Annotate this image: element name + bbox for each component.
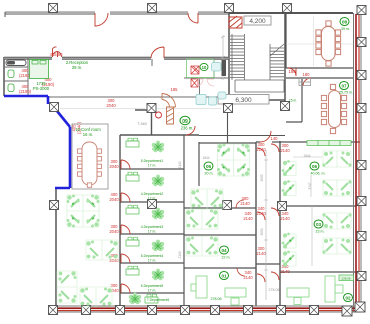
svg-text:17 m.: 17 m. [148,259,157,263]
svg-text:2140: 2140 [280,148,290,153]
svg-text:2140: 2140 [178,161,182,168]
svg-text:40.06. m.: 40.06. m. [311,172,326,176]
svg-text:05: 05 [206,164,212,169]
svg-text:5.Department5: 5.Department5 [141,284,164,288]
svg-text:22 m.: 22 m. [222,256,231,260]
svg-text:2140: 2140 [256,211,266,216]
svg-text:23 m.: 23 m. [316,230,325,234]
svg-text:1844: 1844 [303,154,310,158]
svg-text:20 m.: 20 m. [205,172,214,176]
svg-text:4.Department2: 4.Department2 [141,192,164,196]
svg-text:7.340: 7.340 [137,122,147,126]
svg-text:2040: 2040 [109,164,119,169]
svg-text:2140: 2140 [240,201,250,206]
svg-text:04: 04 [221,248,227,253]
svg-text:25,75 m.: 25,75 m. [339,91,353,95]
svg-text:4.Department3: 4.Department3 [141,225,164,229]
svg-text:10: 10 [202,65,207,70]
svg-text:01: 01 [221,274,227,279]
svg-text:5.Department1: 5.Department1 [141,159,164,163]
svg-text:180: 180 [289,69,297,74]
svg-text:17 m.: 17 m. [148,289,157,293]
svg-text:39 m.: 39 m. [72,65,82,70]
svg-text:2140: 2140 [280,216,290,221]
svg-text:2040: 2040 [109,197,119,202]
svg-text:1844: 1844 [202,156,209,160]
svg-text:2140: 2140 [243,216,253,221]
svg-text:2040: 2040 [106,103,116,108]
svg-text:17 m.: 17 m. [148,197,157,201]
svg-text:140: 140 [271,136,279,141]
svg-text:15 m.: 15 m. [289,99,297,103]
svg-text:228.06: 228.06 [341,277,351,281]
svg-text:PS-2000: PS-2000 [33,86,50,91]
svg-text:02: 02 [345,296,351,301]
svg-text:3050: 3050 [260,228,264,235]
svg-text:7.Department6: 7.Department6 [147,298,170,302]
svg-text:03: 03 [316,222,322,227]
svg-text:180: 180 [303,72,311,77]
svg-text:2140: 2140 [280,269,290,274]
svg-text:185: 185 [171,87,179,92]
svg-text:3747: 3747 [308,182,312,189]
svg-text:08: 08 [342,20,348,25]
svg-text:2140: 2140 [178,251,182,258]
svg-text:09: 09 [182,119,188,125]
svg-text:2140: 2140 [256,147,266,152]
svg-text:39 m.: 39 m. [341,27,350,31]
svg-text:6.Department4: 6.Department4 [141,254,164,258]
svg-text:16 m.: 16 m. [83,132,93,137]
svg-text:3050: 3050 [260,174,264,181]
svg-text:278.06: 278.06 [211,297,222,301]
svg-text:236 m.: 236 m. [181,126,194,131]
svg-text:2040: 2040 [109,229,119,234]
svg-text:07: 07 [341,84,347,89]
svg-text:17 m.: 17 m. [148,164,157,168]
svg-text:(2190): (2190) [19,89,32,94]
svg-text:4,200: 4,200 [249,18,266,25]
svg-text:2140: 2140 [256,251,266,256]
svg-text:6,300: 6,300 [235,97,252,104]
svg-text:17 m.: 17 m. [148,230,157,234]
svg-text:278.06: 278.06 [269,288,280,292]
svg-text:06: 06 [312,164,318,169]
svg-text:415,50: 415,50 [50,52,63,57]
